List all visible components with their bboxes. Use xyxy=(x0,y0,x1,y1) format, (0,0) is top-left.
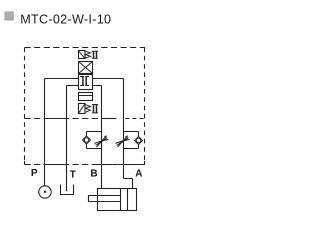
svg-text:B: B xyxy=(90,169,97,180)
gauge center dot xyxy=(44,191,46,193)
wire port P from valve to left xyxy=(45,78,79,80)
cylinder barrel xyxy=(98,189,137,211)
dashed enclosure left border xyxy=(24,48,26,165)
cylinder piston (double line) xyxy=(121,189,128,211)
dashed enclosure right border xyxy=(144,48,146,165)
return spring (bottom) xyxy=(85,105,90,113)
X crossed flow lines xyxy=(79,62,93,74)
svg-text:A: A xyxy=(135,168,142,179)
check valve C2 diamond xyxy=(135,137,143,145)
valve position box 1 (crossed flows X) xyxy=(79,62,93,74)
throttle V2 arcs on A line xyxy=(116,138,130,146)
wire port T from valve to left xyxy=(67,85,79,87)
check valve C2 ball xyxy=(136,138,140,142)
return spring (top) xyxy=(85,51,90,58)
throttle V1 arcs on B line xyxy=(94,138,108,146)
check valve C1 ball xyxy=(84,138,88,142)
svg-text:P: P xyxy=(31,168,38,179)
wire B vertical line down to cylinder xyxy=(101,86,103,189)
cylinder rod xyxy=(89,196,121,202)
solid segments of bottom border near B and A xyxy=(92,164,145,166)
svg-text:MTC-02-W-I-10: MTC-02-W-I-10 xyxy=(20,13,111,27)
wire A vertical line xyxy=(123,79,125,179)
valve position box 3 (parallel flows) xyxy=(79,93,93,101)
manual operator II (top) xyxy=(92,51,98,58)
throttle V1 adjust arrow xyxy=(97,136,107,147)
dashed bottom border xyxy=(25,164,146,166)
parallel flow lines xyxy=(79,95,93,97)
wire T vertical line down to tank xyxy=(66,86,68,192)
wire A jog to cylinder cap end xyxy=(124,179,133,189)
solenoid SOL-a box (top) xyxy=(79,51,86,59)
svg-text:T: T xyxy=(70,170,76,181)
solenoid SOL-b box (bottom) xyxy=(79,104,86,114)
dashed enclosure top border xyxy=(25,47,146,49)
title bullet square xyxy=(4,11,13,20)
wire port A from valve to right xyxy=(93,78,124,80)
wire P vertical line down to gauge xyxy=(44,79,46,186)
solenoid SOL-a diagonal xyxy=(79,51,85,58)
tank symbol on T line xyxy=(61,185,74,195)
check bypass loop on A line xyxy=(124,132,139,149)
border corner stubs bottom xyxy=(25,161,145,165)
check valve C1 diamond xyxy=(83,136,91,144)
throttle V2 arrowhead xyxy=(125,135,128,138)
blocked-port symbols (double T) xyxy=(80,77,89,86)
solid bridge P-T at bottom border xyxy=(45,164,67,166)
pressure gauge connection on P line xyxy=(39,186,51,198)
valve center position box (blocked ports) xyxy=(79,75,93,90)
dashed mid separation line xyxy=(25,118,102,120)
check bypass loop on B line xyxy=(87,132,102,149)
throttle V2 adjust arrow xyxy=(118,136,128,147)
throttle V1 arrowhead xyxy=(104,135,107,138)
manual operator II (bottom) xyxy=(92,105,98,113)
solenoid SOL-b diagonal xyxy=(79,104,85,112)
wire port B from valve to right xyxy=(93,85,102,87)
solid bridge B-A at mid line xyxy=(102,118,117,120)
solid bridge P-T at mid line xyxy=(45,118,67,120)
